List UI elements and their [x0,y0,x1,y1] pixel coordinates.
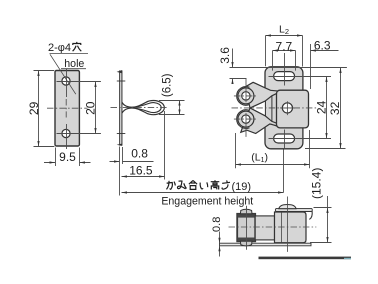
spring strip vertical (double line) [119,70,121,145]
roller block center tick [246,206,248,250]
thin base plate [220,243,312,246]
dim 24 line [326,77,328,139]
dim 32 line [340,68,342,149]
dim (6.5) extension lines [159,101,185,115]
svg-text:2-φ4: 2-φ4 [48,42,71,54]
roller pin cap top [240,209,252,214]
bottom roller [238,111,254,127]
dim 6.3 line [311,50,339,52]
dim L2 extensions [265,36,267,67]
latch lip bar [275,208,312,211]
lip dimple dome [279,205,296,209]
main body block [277,90,309,128]
dim 7.7 line [273,50,296,52]
dim (6.5) line [179,101,181,115]
svg-text:(19): (19) [232,181,252,193]
svg-text:32: 32 [328,101,342,115]
bottom arm [241,108,278,134]
engagement right extension [283,149,285,193]
top arm [245,82,279,108]
dim 16.5 line [122,176,165,178]
svg-text:(L1): (L1) [251,151,268,164]
dim 32 extension bottom [305,148,346,150]
spring loop outer line [122,101,164,115]
strip hole tick bottom [117,133,126,135]
svg-text:0.8: 0.8 [131,147,148,161]
bar teal tip [344,258,351,259]
mounting surface thick bar [259,257,352,260]
hole label underline [61,68,86,70]
svg-text:0.8: 0.8 [211,217,223,232]
top slot vertical tick [284,53,286,86]
loop right extension line [164,111,166,180]
bottom roller outer arc [237,110,250,129]
top slot horizontal tick / 24 top extension [269,76,332,78]
hole top [62,77,70,85]
top slot [274,72,295,81]
bottom slot vertical tick [284,130,286,149]
projection line from front view [287,197,289,252]
center hole cross [280,101,295,115]
svg-text:6.3: 6.3 [314,39,331,53]
front view main center line [232,107,317,109]
dim 9.5 extension lines [56,148,80,167]
svg-text:3.6: 3.6 [218,47,232,64]
hole top center marks [57,69,101,97]
svg-text:Engagement height: Engagement height [161,196,253,208]
top roller outer arc [237,87,250,106]
svg-text:7.7: 7.7 [276,39,293,53]
dim 29 extension lines [34,71,55,147]
svg-text:L2: L2 [279,23,289,36]
roller pin cap bottom [240,241,252,246]
plate body [55,71,79,147]
strip bottom extension line [120,147,123,196]
arm block [255,216,274,240]
dim 3.6 extensions [230,68,347,79]
svg-text:(15.4): (15.4) [310,168,324,199]
dim 0.8 arrow+line [110,161,154,163]
flange plate [265,67,303,149]
dim 3.6 line [232,49,234,85]
dim (L1) line [236,164,310,166]
top roller pin [242,92,250,100]
engagement dim line [122,192,284,194]
kanji ana [72,42,81,51]
arm step line [271,96,273,122]
dim 9.5 line [44,162,91,164]
engagement JP text かみ合い高さ [167,180,231,189]
svg-text:24: 24 [314,100,328,114]
roller block [237,214,255,242]
top roller [238,88,254,104]
wing gap white triangle [250,101,265,116]
bottom slot horizontal tick / 24 bottom extension [269,138,332,140]
bottom roller pin [242,115,250,123]
dim 20 line [95,82,97,134]
plate center line vertical [65,99,67,118]
dim (15.4) extensions [310,208,332,243]
dim 6.3 extension [303,36,311,90]
catch body side [275,212,307,243]
strip top foot [117,70,122,73]
body internal edge [281,212,283,243]
hole bottom center marks [57,124,101,149]
svg-text:9.5: 9.5 [59,150,76,164]
svg-text:16.5: 16.5 [129,163,153,177]
roller ring top band [238,214,255,217]
strip bottom foot [117,144,122,146]
dim (15.4) line [327,196,329,243]
plate center line horizontal [47,107,88,109]
svg-text:29: 29 [27,101,41,115]
lip hook right end [309,211,312,219]
hole bottom [62,129,70,137]
side view center line [229,226,317,228]
dim 0.8 side [219,232,221,257]
spring loop inner line [132,103,162,113]
center hole [282,103,292,113]
leader 2-phi4 [50,54,76,94]
spring center line [111,107,169,109]
dim (L1) extensions [236,130,310,168]
bottom slot [274,134,295,143]
dim 7.7 extensions [273,51,296,71]
dim 29 line [38,71,40,147]
strip hole tick top [117,80,126,82]
top roller center marks [245,78,247,102]
svg-text:(6.5): (6.5) [161,73,173,97]
label underline [50,52,89,54]
svg-text:hole: hole [64,58,84,70]
dim L2 line [266,35,303,37]
roller ring bottom band [238,238,255,241]
svg-text:20: 20 [84,101,98,115]
bottom roller center marks [245,113,247,137]
